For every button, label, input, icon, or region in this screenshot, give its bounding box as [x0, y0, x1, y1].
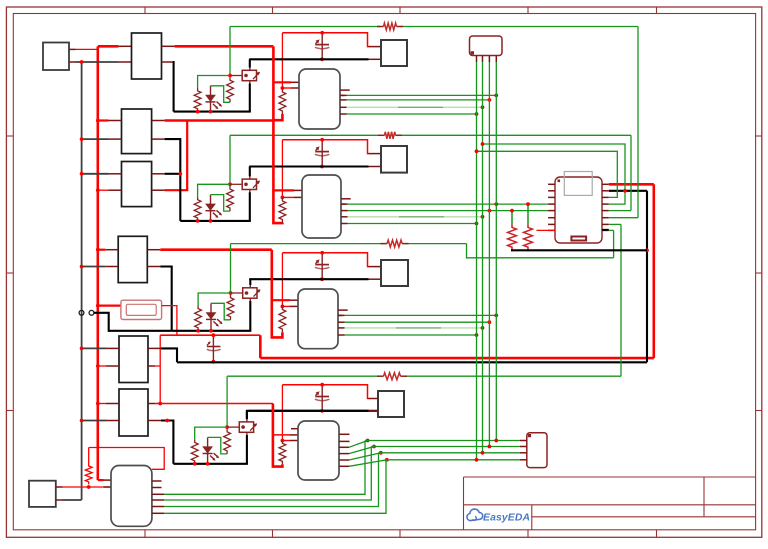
resistor R1b: [227, 77, 234, 102]
wire gate row1: [230, 75, 242, 77]
wire green out2 row1: [340, 99, 347, 101]
component A2 module: [381, 146, 407, 173]
wire bus to fuse F1: [98, 305, 121, 307]
node D3 cathode: [209, 329, 213, 333]
wire cap loop left row2: [281, 140, 283, 198]
node C2 to black wire: [320, 165, 324, 169]
wire gate row4: [227, 426, 239, 428]
resistor R10: [88, 448, 90, 464]
component A4 module: [378, 391, 404, 417]
wire source row3: [249, 301, 251, 331]
node green vertical 2 end: [481, 451, 485, 455]
node green out2 row2: [488, 209, 492, 213]
resistor R3: [381, 243, 388, 245]
wire green bottom runs: [365, 440, 520, 442]
wire K2 to bus row2: [152, 120, 165, 122]
node D2 cathode: [209, 219, 213, 223]
wire IC pin2 row1: [282, 87, 291, 89]
wire gray bus net: [81, 62, 83, 500]
wire green out2 row3: [338, 321, 345, 323]
node diag2 row4: [372, 445, 376, 449]
wire green row3 riser: [613, 230, 615, 257]
wire drain row1: [249, 59, 251, 67]
wire green row2 top: [230, 134, 381, 136]
wire IC pin2 row3: [282, 305, 290, 307]
wire bus branch row2: [273, 121, 282, 224]
wire opto bottom row3: [172, 330, 252, 332]
wire J2 pin1 to U5: [56, 486, 63, 488]
wire bus branch row4: [273, 404, 283, 467]
wire green U6 to row1: [609, 217, 638, 219]
wire IC pin2 row4: [282, 440, 290, 442]
wire green row1 top: [230, 26, 380, 28]
node opto3 gate junction: [229, 291, 233, 295]
wire bus to relay K1: [98, 45, 119, 48]
wire opto bottom row1: [174, 111, 251, 113]
wire black cap row1: [249, 58, 368, 60]
wire bus to K4: [98, 249, 105, 251]
LED D2: [206, 195, 223, 221]
capacitor C1: [315, 31, 330, 59]
wire jumper to opto bottom: [94, 313, 172, 331]
wire green row4 top: [227, 375, 380, 377]
resistor R2: [378, 134, 385, 136]
wire cap loop top row3: [282, 253, 368, 267]
relay K1: [132, 33, 162, 79]
wire thick red to U6 pin: [609, 183, 654, 186]
wire thick red riser to U6: [652, 184, 655, 358]
wire K5 red riser: [148, 365, 155, 367]
wire green diag1 row4: [339, 446, 349, 448]
wire K2 black elbow: [152, 138, 165, 140]
relay K6: [119, 389, 148, 436]
wire green out4 row1: [340, 113, 347, 115]
wire black cap row4: [249, 410, 368, 412]
wire opto bottom row4: [173, 463, 248, 465]
wire green to R anode row3: [198, 293, 230, 306]
wire drain row2: [249, 167, 251, 177]
wire green U5 out3: [152, 506, 164, 508]
wire green out2 row2: [341, 210, 348, 212]
pin P1 x489.4: [488, 56, 490, 63]
wire IC pin1 row3: [272, 299, 290, 301]
op-amp U3 driver: [298, 289, 338, 349]
capacitor C4: [315, 383, 330, 411]
wire green row1 riser: [637, 27, 639, 218]
resistor R4b: [224, 429, 231, 454]
U6 bottom mark: [571, 237, 586, 241]
relay K2: [122, 109, 152, 154]
pins U6 right: [602, 184, 609, 230]
wire green LED anode to R3b row3: [211, 303, 231, 320]
wire green to R anode row4: [195, 427, 227, 440]
wire green vertical 1: [476, 62, 478, 460]
node green out2 row3: [488, 320, 492, 324]
node diag3 row4: [379, 451, 383, 455]
wire green vertical 2: [482, 62, 484, 453]
pin stub U4 left: [291, 428, 298, 430]
capacitor C2: [315, 138, 330, 167]
pin stubs U5: [152, 480, 162, 482]
resistor R2b: [227, 186, 234, 211]
wire K3 black pin: [152, 173, 165, 175]
node green out2 row1: [488, 98, 492, 102]
wire IC pin1 row2: [273, 189, 294, 191]
node green out3 row2: [481, 215, 485, 219]
wire thick red long run: [260, 357, 654, 360]
wire green row4 riser: [620, 224, 622, 376]
node green out1 row3: [494, 314, 498, 318]
resistor R1c: [279, 89, 286, 114]
op-amp U6 MCU: [555, 177, 602, 243]
transistor Q1: [242, 67, 260, 85]
wire IC pin2 row2: [282, 196, 294, 198]
transistor Q2: [242, 175, 260, 193]
node green out4 row2: [475, 222, 479, 226]
node green out3 row1: [481, 105, 485, 109]
wire black stub U6 right: [602, 229, 609, 231]
wire J2 pin2 to gray bus: [56, 499, 63, 501]
pin stubs U3: [338, 310, 348, 315]
wire black to U6 pin: [609, 190, 647, 192]
connector J2: [29, 481, 56, 507]
wire bus to K2: [98, 119, 109, 121]
wire green U5 out1: [152, 493, 164, 495]
wire bus branch row1: [273, 46, 282, 120]
resistor R3b: [227, 295, 234, 320]
wire K5 black to long run: [148, 347, 161, 349]
wire black cap row3: [249, 278, 368, 280]
wire K4 to bus row3: [147, 249, 160, 251]
resistor R4: [377, 375, 384, 377]
wire green to R anode row2: [198, 184, 230, 197]
U6 label window: [564, 172, 592, 196]
pin P1 x496.3: [495, 56, 497, 63]
node green vertical 4 end: [494, 439, 498, 443]
wire green out1 row2: [341, 203, 348, 205]
wire black long run: [177, 361, 647, 363]
wire black cap row2: [249, 165, 368, 167]
wire K1 black elbow row1: [162, 61, 174, 63]
component A3 module: [381, 260, 408, 286]
fuse F1: [121, 300, 162, 319]
node diag1 row4: [366, 439, 370, 443]
wire green feedback row2: [229, 135, 231, 184]
wire green U5 out4: [152, 512, 164, 514]
wire green feedback row4: [226, 376, 228, 427]
resistor R2a: [194, 197, 201, 221]
wire green out4 row2: [341, 223, 348, 225]
wire cap loop top row4: [282, 385, 368, 399]
wire cap loop left row3: [281, 253, 283, 307]
wire green out3 row1: [340, 106, 347, 108]
wire bus to K3: [98, 189, 109, 191]
wire gray to K2: [82, 138, 109, 140]
wire green vertical 3: [488, 62, 490, 447]
relay K3: [122, 162, 152, 207]
pin P2 y440.5: [520, 440, 527, 442]
node green out3 row3: [481, 326, 485, 330]
node opto2 gate junction: [228, 182, 232, 186]
pin P1 x476.5: [476, 56, 478, 63]
wire green out1 row1: [340, 94, 347, 96]
wire green U6 to row3: [609, 229, 614, 231]
op-amp U1 driver: [299, 69, 340, 129]
node green out1 row1: [494, 94, 498, 98]
wire cap loop left row4: [281, 385, 283, 441]
wire thick red upper run: [160, 334, 260, 336]
resistor R4c: [279, 441, 286, 465]
node green out4 row3: [475, 333, 479, 337]
connector J1: [43, 43, 69, 71]
wire green diag2 row4: [339, 453, 349, 455]
wire cap loop left row1: [281, 33, 283, 89]
node R4a bottom: [193, 462, 197, 466]
wire K4 black elbow: [147, 266, 160, 268]
node C4 to black wire: [320, 409, 324, 413]
wire gray to K4: [82, 266, 106, 268]
LED D4: [203, 437, 220, 463]
EasyEDA logo: [467, 509, 530, 524]
resistor R3c: [279, 306, 286, 332]
node green vertical 3 end: [488, 445, 492, 449]
wire fuse to red riser: [162, 306, 177, 336]
wire green LED anode to R1b row1: [211, 86, 231, 103]
relay K4: [118, 236, 147, 282]
transistor Q3: [243, 284, 261, 302]
pin stubs U4: [339, 434, 350, 441]
resistor R2c: [279, 198, 286, 223]
wire source row2: [249, 192, 251, 221]
node R3a bottom: [196, 329, 200, 333]
capacitor C3: [315, 251, 330, 279]
resistor R1: [377, 26, 384, 28]
wire red U6 bottom left pin: [537, 229, 556, 231]
wire green LED anode to R2b row2: [211, 195, 231, 212]
wire bus branch row3: [272, 250, 283, 338]
node opto4 gate junction: [225, 425, 229, 429]
pin P1 x482.5: [482, 56, 484, 63]
wire gray to K6: [82, 420, 106, 422]
node R1a bottom: [196, 110, 200, 114]
wire green row3 top: [231, 243, 384, 245]
wire black riser to U6: [646, 191, 648, 362]
pin P2 y446.5: [520, 446, 527, 448]
resistor R8: [511, 211, 513, 225]
wire green out4 row3: [338, 334, 345, 336]
wire green to R anode row1: [198, 76, 230, 89]
wire thick red elbow down: [259, 335, 262, 358]
pin P2 y459.8: [520, 459, 527, 461]
wire gate row3: [231, 292, 243, 294]
LED D1: [206, 86, 223, 112]
wire K6 black elbow: [148, 420, 161, 422]
node D1 cathode: [209, 110, 213, 114]
pins U6 left: [548, 184, 555, 230]
wire green U5 out2: [152, 499, 164, 501]
resistor R3a: [195, 306, 202, 331]
wire drain run row4: [247, 411, 378, 419]
wire red supply bus: [97, 46, 100, 480]
wire green feedback row1: [229, 27, 231, 76]
wire red bus to U5 pin1: [98, 479, 104, 481]
wire green out1 row3: [338, 314, 345, 316]
wire J1 pin2 to relay K1: [69, 61, 76, 63]
wire K2 K3 red branch: [152, 189, 165, 191]
node diag4 row4: [385, 458, 389, 462]
wire cap loop top row1: [282, 33, 368, 47]
LED D3: [206, 303, 223, 331]
pin stubs U1: [340, 90, 350, 95]
wire green U6 to row4: [609, 223, 621, 225]
wire U5 red top right: [89, 448, 165, 470]
op-amp U5 driver: [111, 466, 152, 527]
title block: [464, 477, 756, 530]
wire green vertical 4: [495, 62, 497, 441]
wire green row3 jog: [467, 244, 614, 258]
wire gray to K5: [82, 347, 106, 349]
wire green LED anode to R4b row4: [208, 437, 228, 454]
resistor R9: [527, 204, 529, 224]
jumper P3 circles: [79, 310, 84, 315]
node opto1 gate junction: [228, 74, 232, 78]
node green out1 row2: [494, 202, 498, 206]
wire green diag3 row4: [339, 459, 349, 461]
node R2a bottom: [196, 219, 200, 223]
pin stubs U2: [341, 199, 351, 204]
wire opto bottom row2: [180, 220, 251, 222]
wire black resistor bottoms: [511, 249, 647, 251]
wire IC pin1 row4: [273, 434, 290, 436]
resistor R1a: [194, 88, 201, 112]
wire drain row4: [246, 411, 248, 419]
pin P2 y452.8: [520, 452, 527, 454]
wire gray to K3: [82, 173, 109, 175]
wire K1 to bus row1: [162, 45, 175, 47]
wire bus to K6: [98, 403, 106, 405]
wire green feedback row3: [230, 244, 232, 293]
connector P2: [527, 433, 547, 468]
resistor R4a: [191, 440, 198, 464]
op-amp U2 driver: [302, 175, 341, 238]
wire source row1: [249, 84, 251, 112]
wire green U6 link2: [483, 144, 626, 204]
wire green diag4 row4: [339, 465, 349, 467]
node green vertical 1 end: [475, 458, 479, 462]
wire J1 pin1 to bus: [69, 48, 76, 50]
wire green U6 to row2: [609, 210, 631, 212]
wire green row2 riser: [630, 135, 632, 210]
wire source row4: [246, 435, 248, 464]
node C1 to black wire: [320, 57, 324, 61]
wire green U6 link1: [477, 151, 618, 197]
wire IC pin1 row1: [273, 81, 291, 83]
wire green out3 row3: [338, 327, 345, 329]
node D4 cathode: [206, 462, 210, 466]
capacitor C5: [207, 333, 221, 363]
node green out4 row1: [475, 112, 479, 116]
op-amp U4 driver: [298, 421, 339, 480]
wire bus to K5: [98, 365, 106, 367]
pin stub U5 pin2: [104, 486, 112, 488]
wire gate row2: [230, 183, 242, 185]
wire K6 to bus row4: [148, 403, 155, 405]
connector P1: [470, 36, 503, 56]
node C3 to black wire: [320, 277, 324, 281]
relay K5: [119, 336, 148, 383]
wire drain row3: [249, 279, 251, 285]
wire green out3 row2: [341, 216, 348, 218]
svg-text:EasyEDA: EasyEDA: [483, 513, 530, 524]
wire cap loop top row2: [282, 140, 368, 154]
wire red riser down: [159, 366, 161, 404]
transistor Q4: [239, 418, 257, 436]
component A1 module: [381, 40, 407, 66]
